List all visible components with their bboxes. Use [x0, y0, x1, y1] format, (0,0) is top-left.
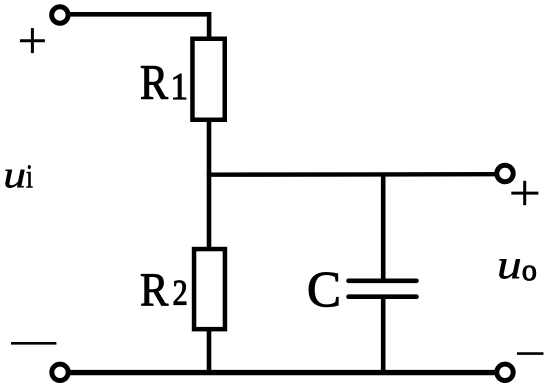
label R1: subscript 1	[174, 74, 186, 99]
label R2: subscript 2	[174, 281, 186, 305]
bottom rail wire	[70, 370, 497, 375]
minus label input	[11, 342, 56, 345]
label R2: letter R	[141, 274, 168, 305]
label R1: letter R	[141, 66, 168, 99]
wire: R1 bottom to R2 top	[207, 121, 212, 250]
label uo: subscript o	[523, 266, 536, 281]
label ui: italic u	[6, 170, 25, 188]
minus label output	[517, 352, 544, 355]
label ui: subscript i	[27, 165, 33, 187]
terminal output bottom-right	[497, 364, 513, 380]
wire top: input terminal to R1 top	[69, 14, 209, 40]
capacitor C plates	[349, 281, 417, 297]
resistor R2	[194, 249, 225, 329]
terminal input top-left	[52, 7, 68, 23]
terminal input bottom-left	[52, 364, 68, 380]
wire: middle node to output terminal	[207, 172, 497, 177]
label C	[309, 273, 338, 307]
wire: capacitor branch top	[381, 175, 386, 282]
terminal output top-right	[497, 165, 513, 181]
resistor R1	[192, 39, 224, 120]
label uo: italic u	[499, 259, 520, 278]
wire: capacitor branch bottom	[381, 297, 386, 373]
wire: R2 bottom to ground rail	[207, 328, 212, 373]
plus label output	[511, 181, 538, 205]
plus label input	[20, 28, 45, 53]
